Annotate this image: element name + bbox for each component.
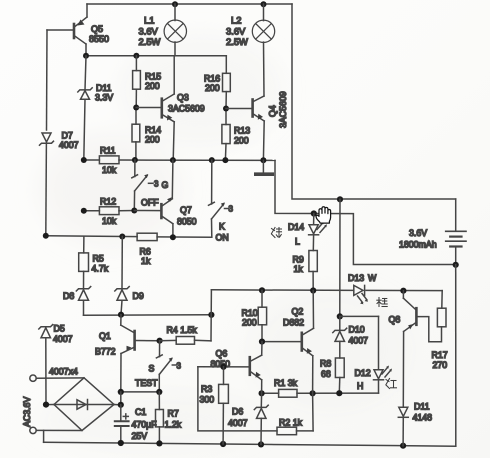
svg-text:4007: 4007 xyxy=(59,140,79,150)
transistor Q2 D882 xyxy=(262,291,314,394)
resistor R6 1k xyxy=(137,233,157,266)
svg-text:AC3.6V: AC3.6V xyxy=(22,397,32,427)
svg-text:R17: R17 xyxy=(432,350,448,360)
svg-text:D5: D5 xyxy=(54,324,65,334)
svg-text:Q5: Q5 xyxy=(91,24,103,34)
resistor R2 1k xyxy=(277,418,313,435)
svg-text:25V: 25V xyxy=(132,431,148,441)
wire bottom ground rail xyxy=(44,442,456,446)
resistor R14 200 xyxy=(132,108,161,160)
svg-text:1k: 1k xyxy=(141,256,151,266)
svg-text:Q1: Q1 xyxy=(99,331,111,341)
transistor Q1 B772 xyxy=(95,315,160,392)
resistor R16 200 xyxy=(204,56,230,109)
wire Q1 emitter row y392 xyxy=(121,391,160,393)
svg-text:Q3: Q3 xyxy=(177,93,189,103)
svg-text:R15: R15 xyxy=(145,72,161,82)
svg-text:3.3V: 3.3V xyxy=(95,93,113,103)
node Q2 emitter R2 junction xyxy=(310,390,316,396)
svg-text:C1: C1 xyxy=(135,407,146,417)
svg-text:D10: D10 xyxy=(349,325,365,335)
label green char xyxy=(272,228,282,238)
lamp L1 3.6V 2.5W xyxy=(139,4,187,56)
node D14 anode junction xyxy=(311,210,317,216)
svg-text:3AC5609: 3AC5609 xyxy=(278,91,288,128)
node R15 R14 Q3 base junction xyxy=(133,105,139,111)
svg-text:L: L xyxy=(295,237,300,247)
node R13 bottom junction xyxy=(222,157,228,163)
resistor R10 200 xyxy=(242,290,267,341)
node D6 bottom junction xyxy=(258,441,264,447)
node D11 bottom junction xyxy=(400,443,406,449)
svg-text:200: 200 xyxy=(234,136,249,146)
svg-text:D12: D12 xyxy=(355,368,371,378)
wire net A from top rail to battery plus xyxy=(292,4,456,199)
diode D5 4007 xyxy=(39,324,73,405)
node battery minus junction xyxy=(453,262,459,268)
wire D10 loop top xyxy=(340,315,379,317)
hand cursor xyxy=(316,207,331,223)
svg-text:R6: R6 xyxy=(140,247,151,257)
svg-text:2.5W: 2.5W xyxy=(226,36,248,47)
node R4 riser junction on D8 row xyxy=(208,312,214,318)
svg-text:W: W xyxy=(368,273,377,283)
svg-text:S: S xyxy=(149,364,155,374)
node Q7 base switch G bottom junction xyxy=(131,208,137,214)
wire C1 feed xyxy=(120,392,122,405)
svg-text:1k: 1k xyxy=(294,264,304,274)
lamp L2 3.6V 2.5W xyxy=(226,4,275,96)
svg-text:R9: R9 xyxy=(293,255,304,265)
svg-text:3.6V: 3.6V xyxy=(409,228,427,238)
svg-text:D9: D9 xyxy=(133,291,144,301)
resistor R15 200 xyxy=(133,56,162,108)
resistor R17 270 xyxy=(432,291,448,370)
node Q6 emitter D6 junction xyxy=(259,390,265,396)
diode D11 4148 xyxy=(398,402,432,446)
resistor R3 300 xyxy=(200,367,229,444)
bridge rectifier 4007x4 xyxy=(46,367,121,431)
transistor Q4 3AC5609 xyxy=(226,91,288,160)
svg-text:H: H xyxy=(357,381,363,391)
transistor Q7 8050 xyxy=(134,160,196,237)
node S bottom R7 top junction xyxy=(156,389,162,395)
svg-text:D11: D11 xyxy=(414,402,430,412)
wire rail y236 R6 row xyxy=(46,235,137,238)
node R7 bottom junction xyxy=(156,440,162,446)
LED D13 W orange xyxy=(348,273,377,304)
svg-text:200: 200 xyxy=(145,81,160,91)
node Q1 emitter junction xyxy=(118,389,124,395)
diode D8 xyxy=(63,287,91,316)
svg-text:2.5W: 2.5W xyxy=(139,36,161,47)
resistor R7 1.2k xyxy=(156,392,182,444)
svg-text:D7: D7 xyxy=(62,131,73,141)
wire left rail from Q5 base down to D7 xyxy=(46,30,49,130)
transistor Q8 xyxy=(389,291,442,407)
node R12 left junction xyxy=(81,208,87,214)
svg-text:R2 1k: R2 1k xyxy=(279,418,303,428)
svg-text:3: 3 xyxy=(229,205,234,214)
node rail start at D7 line xyxy=(43,233,49,239)
svg-text:Q8: Q8 xyxy=(389,315,401,325)
wire battery top lead xyxy=(455,199,457,231)
svg-text:8050: 8050 xyxy=(177,217,197,227)
svg-text:Q4: Q4 xyxy=(268,105,278,117)
svg-text:200: 200 xyxy=(145,135,160,145)
node Q4 emitter ground junction xyxy=(260,157,266,163)
svg-text:D14: D14 xyxy=(288,222,304,232)
node R10 bottom Q2 base junction xyxy=(259,339,265,345)
diode D9 xyxy=(115,237,144,315)
capacitor C1 470uF 25V xyxy=(115,405,157,444)
svg-text:D6: D6 xyxy=(232,407,243,417)
svg-text:B772: B772 xyxy=(95,347,116,357)
resistor R1 3k xyxy=(274,378,298,397)
wire rail y160 R11 row xyxy=(84,159,100,161)
transistor Q6 8050 xyxy=(198,342,262,394)
node R10 top junction xyxy=(259,287,265,293)
node Q3 emitter Q7 emitter junction xyxy=(170,157,176,163)
node bridge minus junction xyxy=(43,402,49,408)
svg-text:4148: 4148 xyxy=(413,413,433,423)
svg-text:Q7: Q7 xyxy=(180,205,192,215)
ground xyxy=(256,160,272,174)
svg-text:1800mAh: 1800mAh xyxy=(399,240,437,250)
switch K with ON label xyxy=(209,160,234,242)
svg-text:3: 3 xyxy=(177,362,182,371)
svg-text:3.6V: 3.6V xyxy=(139,26,159,37)
node switch K top junction xyxy=(209,157,215,163)
node R9 bottom Q2 collector junction xyxy=(310,287,316,293)
node C1 bottom junction xyxy=(118,440,124,446)
diode D10 4007 xyxy=(333,316,368,358)
svg-text:R16: R16 xyxy=(204,74,220,84)
node D10 loop top junction xyxy=(337,313,343,319)
wire collector rail of Q5 at y56 xyxy=(86,55,226,57)
svg-text:D8: D8 xyxy=(63,291,74,301)
diode D7 4007 xyxy=(40,131,79,236)
svg-text:1.2k: 1.2k xyxy=(165,420,182,430)
wire R4 riser to D13 row corner xyxy=(210,290,212,341)
svg-text:Q6: Q6 xyxy=(216,349,228,359)
zener D11 3.3V xyxy=(78,56,113,160)
svg-text:D13: D13 xyxy=(348,273,364,283)
wire Q5 emitter feed from top rail xyxy=(86,4,88,17)
LED D14 green L xyxy=(288,214,327,251)
svg-text:TEST: TEST xyxy=(135,378,158,388)
svg-text:200: 200 xyxy=(242,318,257,328)
switch G with OFF label xyxy=(132,160,169,211)
svg-text:OFF: OFF xyxy=(141,198,159,208)
transistor Q3 3AC5609 xyxy=(136,56,205,160)
svg-text:R1 3k: R1 3k xyxy=(274,378,298,388)
node D10 branch junction on net A xyxy=(337,196,343,202)
resistor R5 4.7k xyxy=(79,236,109,288)
svg-text:3.6V: 3.6V xyxy=(226,26,246,37)
svg-text:10k: 10k xyxy=(102,216,117,226)
node R3 bottom junction xyxy=(220,441,226,447)
svg-text:R10: R10 xyxy=(242,308,258,318)
svg-text:R8: R8 xyxy=(320,359,331,369)
svg-text:L2: L2 xyxy=(231,15,241,26)
wire R2 loop from Q6 base around xyxy=(198,367,277,431)
wire right rail down to bottom xyxy=(455,265,457,446)
wire net B from rail to battery minus xyxy=(275,160,456,264)
battery 3.6V 1800mAh xyxy=(399,228,466,265)
switch S with TEST label xyxy=(135,341,182,392)
resistor R11 10k xyxy=(99,146,119,176)
resistor R9 1k xyxy=(293,251,318,291)
node R4 left S top junction xyxy=(157,338,163,344)
node L1 top junction xyxy=(172,1,178,7)
wire AC bottom corner to ground rail xyxy=(43,430,45,442)
wire D10 branch riser xyxy=(339,199,341,316)
wire D13 row y290 xyxy=(211,289,353,292)
wire R2 riser to Q2 emitter node xyxy=(312,393,315,431)
svg-text:3AC5609: 3AC5609 xyxy=(168,104,205,114)
svg-text:4007x4: 4007x4 xyxy=(49,367,78,377)
svg-text:R13: R13 xyxy=(234,126,250,136)
node bridge plus junction xyxy=(118,402,124,408)
svg-text:300: 300 xyxy=(200,395,215,405)
svg-text:R3: R3 xyxy=(201,384,212,394)
node Q7 collector junction xyxy=(170,234,176,240)
resistor R8 68 xyxy=(320,358,344,393)
svg-text:470μF: 470μF xyxy=(132,420,158,430)
label orange char xyxy=(377,298,387,307)
node R16 R13 Q4 base junction xyxy=(223,106,229,112)
svg-text:4007: 4007 xyxy=(53,334,73,344)
wire D8 D9 row y315 xyxy=(84,314,212,316)
label red char xyxy=(386,379,397,389)
wire top supply rail xyxy=(87,3,292,5)
svg-text:D11: D11 xyxy=(96,83,112,93)
resistor R4 1.5k xyxy=(160,325,211,344)
node R15 top junction xyxy=(133,53,139,59)
svg-text:4007: 4007 xyxy=(349,336,369,346)
svg-text:ON: ON xyxy=(216,233,229,243)
svg-text:68: 68 xyxy=(321,369,331,379)
svg-text:200: 200 xyxy=(205,83,220,93)
svg-text:3: 3 xyxy=(154,180,159,189)
node R8 bottom junction xyxy=(336,390,342,396)
node R3 top Q6 base junction xyxy=(220,364,226,370)
svg-text:R14: R14 xyxy=(145,125,161,135)
svg-text:R4 1.5k: R4 1.5k xyxy=(167,325,198,335)
resistor R13 200 xyxy=(222,109,250,161)
svg-text:8050: 8050 xyxy=(211,359,231,369)
node rail left end at D11 line xyxy=(81,157,87,163)
svg-text:L1: L1 xyxy=(144,15,154,26)
transistor Q5 8550 xyxy=(47,17,109,56)
svg-text:R5: R5 xyxy=(93,254,104,264)
node L2 top junction xyxy=(261,1,267,7)
svg-text:Q2: Q2 xyxy=(292,307,304,317)
node Q8 collector junction xyxy=(400,288,406,294)
diode D6 4007 xyxy=(228,393,268,444)
resistor R12 10k xyxy=(84,197,135,227)
LED D12 H red xyxy=(355,316,393,393)
wire R8 D12 bottom row y393 xyxy=(262,392,279,394)
terminal AC bottom xyxy=(30,427,82,433)
node D9 bottom Q1 collector junction xyxy=(118,312,124,318)
svg-text:270: 270 xyxy=(433,360,448,370)
svg-text:R7: R7 xyxy=(168,409,179,419)
svg-text:4007: 4007 xyxy=(228,418,248,428)
svg-text:R11: R11 xyxy=(100,146,116,156)
node Q5 collector junction xyxy=(83,53,89,59)
terminal AC top xyxy=(30,375,84,381)
svg-text:4.7k: 4.7k xyxy=(92,264,109,274)
svg-text:10k: 10k xyxy=(102,165,117,175)
svg-text:D882: D882 xyxy=(283,318,304,328)
svg-text:K: K xyxy=(219,222,225,232)
node D9 top junction xyxy=(119,234,125,240)
svg-text:R12: R12 xyxy=(100,197,116,207)
node R11 right switch G top xyxy=(132,157,138,163)
svg-text:G: G xyxy=(162,180,169,190)
svg-text:8550: 8550 xyxy=(89,34,109,44)
